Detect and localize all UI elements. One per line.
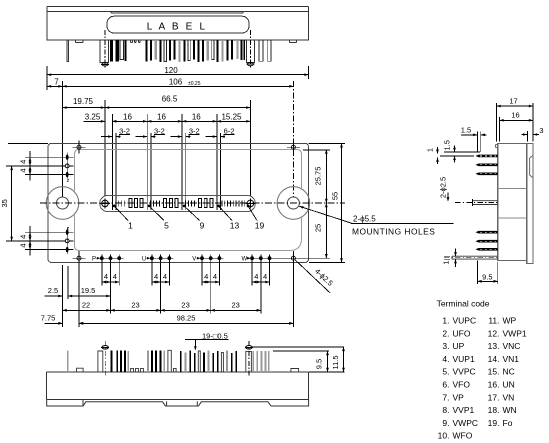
svg-text:12.: 12. [488, 328, 500, 338]
svg-text:5: 5 [164, 221, 169, 231]
svg-text:3.: 3. [442, 341, 449, 351]
svg-text:19-□0.5: 19-□0.5 [202, 331, 228, 340]
svg-text:7.75: 7.75 [41, 314, 56, 323]
svg-text:2.5: 2.5 [48, 286, 58, 295]
svg-text:3.25: 3.25 [85, 112, 101, 121]
svg-text:2-ϕ2.5: 2-ϕ2.5 [439, 177, 448, 198]
svg-text:Terminal code: Terminal code [437, 299, 490, 309]
svg-text:4.: 4. [442, 354, 449, 364]
svg-text:22: 22 [82, 301, 90, 310]
svg-text:UP: UP [453, 341, 465, 351]
svg-text:23: 23 [131, 301, 139, 310]
dim 15.25 [217, 112, 251, 122]
svg-text:66.5: 66.5 [162, 95, 178, 104]
svg-text:P: P [92, 257, 96, 263]
svg-text:2-ϕ5.5: 2-ϕ5.5 [353, 214, 376, 223]
svg-text:4: 4 [154, 272, 158, 281]
svg-text:15.: 15. [488, 367, 500, 377]
dim 106 [63, 77, 294, 87]
svg-text:4: 4 [113, 272, 117, 281]
svg-text:VP: VP [453, 392, 465, 402]
bottom dimension rows [41, 251, 294, 327]
svg-text:16: 16 [192, 112, 201, 121]
front left thin pin [67, 40, 69, 61]
svg-text:5.: 5. [442, 367, 449, 377]
svg-text:19.5: 19.5 [81, 286, 96, 295]
ext lines slot guides [105, 100, 250, 197]
svg-text:120: 120 [164, 66, 178, 75]
svg-text:8.: 8. [442, 405, 449, 415]
svg-text:17.: 17. [488, 392, 500, 402]
svg-text:4: 4 [19, 168, 28, 172]
corner hole bottom-right [287, 252, 300, 265]
svg-text:106: 106 [169, 77, 183, 86]
svg-text:23: 23 [232, 301, 240, 310]
svg-text:3: 3 [539, 126, 543, 135]
corner hole top-right [287, 141, 300, 154]
svg-text:Fo: Fo [503, 418, 513, 428]
label plate [107, 16, 249, 33]
svg-text:16.: 16. [488, 380, 500, 390]
svg-text:11.5: 11.5 [331, 355, 340, 369]
svg-text:VNC: VNC [503, 341, 521, 351]
svg-text:VUP1: VUP1 [453, 354, 475, 364]
ext line hole centers [63, 81, 294, 197]
left edge terminals [65, 153, 73, 254]
plan mounting ear right [277, 187, 310, 220]
corner hole top-left [73, 141, 86, 154]
svg-text:UFO: UFO [453, 328, 471, 338]
svg-text:19: 19 [255, 221, 265, 231]
label 4-phi2.5 [295, 260, 335, 294]
svg-text:UN: UN [503, 380, 515, 390]
pin number leaders [113, 205, 264, 231]
svg-text:11.: 11. [488, 316, 499, 326]
ext line body top left [8, 142, 48, 144]
side view body [496, 144, 533, 264]
svg-text:23: 23 [181, 301, 189, 310]
svg-text:9: 9 [200, 221, 205, 231]
svg-text:16: 16 [123, 112, 132, 121]
bottom view pin row [67, 350, 299, 372]
svg-text:WN: WN [503, 405, 517, 415]
svg-text:z: z [67, 226, 70, 232]
mounting hole left [57, 197, 69, 209]
corner hole bottom-left [73, 252, 86, 265]
svg-text:VN1: VN1 [503, 354, 520, 364]
svg-text:WP: WP [503, 316, 517, 326]
svg-text:6-2: 6-2 [224, 126, 235, 135]
guide pin right front [246, 30, 254, 68]
side view dimensions [425, 97, 543, 285]
bottom view body and baseplate [47, 372, 309, 406]
dim 7 [47, 77, 63, 87]
svg-text:19.75: 19.75 [73, 97, 94, 106]
svg-text:4: 4 [19, 243, 28, 247]
svg-text:9.5: 9.5 [315, 359, 324, 369]
svg-text:4: 4 [19, 160, 28, 164]
svg-text:VVP1: VVP1 [453, 405, 475, 415]
mounting hole right [287, 197, 299, 209]
svg-text:4: 4 [213, 272, 217, 281]
dim 19.75 [63, 97, 106, 109]
svg-text:L A B E L: L A B E L [147, 21, 208, 32]
svg-text:1: 1 [128, 221, 133, 231]
svg-text:9.5: 9.5 [482, 272, 492, 281]
svg-text:VWPC: VWPC [453, 418, 479, 428]
svg-text:WFO: WFO [453, 431, 473, 441]
svg-text:25: 25 [313, 224, 322, 232]
front view left foot notch [76, 40, 84, 42]
dims 3-2 and 6-2 with extension lines [101, 114, 235, 210]
svg-text:15.25: 15.25 [221, 112, 242, 121]
svg-text:98.25: 98.25 [177, 314, 196, 323]
right dimension stack 25.75 25 55 [272, 143, 345, 262]
plan centerline [40, 202, 345, 204]
plan mounting ear left [46, 187, 79, 220]
side long bottom pin [444, 256, 498, 259]
guide pin hole left plan [100, 198, 110, 208]
svg-text:13: 13 [230, 221, 240, 231]
plan outer body [48, 143, 309, 262]
LABEL text [147, 21, 208, 32]
dim 66.5 [105, 95, 250, 109]
svg-text:V: V [192, 257, 196, 263]
svg-text:NC: NC [503, 367, 515, 377]
svg-text:9.: 9. [442, 418, 449, 428]
dim 16 a [112, 112, 147, 122]
plan inner lid outline [75, 150, 302, 251]
svg-text:6.: 6. [442, 380, 449, 390]
svg-text:z: z [67, 178, 70, 184]
svg-text:4: 4 [163, 272, 167, 281]
svg-text:VUPC: VUPC [453, 316, 477, 326]
side pins top group [476, 155, 498, 176]
dim 3.25 [84, 112, 117, 122]
bottom guide pin left [101, 341, 109, 376]
dim 120 [47, 66, 309, 90]
svg-text:16: 16 [157, 112, 166, 121]
guide pin hole right plan [245, 198, 255, 208]
svg-text:4: 4 [19, 235, 28, 239]
svg-text:18.: 18. [488, 405, 500, 415]
svg-text:VVPC: VVPC [453, 367, 476, 377]
svg-text:3-2: 3-2 [189, 126, 200, 135]
svg-text:4: 4 [104, 272, 108, 281]
svg-text:4: 4 [204, 272, 208, 281]
svg-text:U: U [142, 257, 146, 263]
svg-text:17: 17 [509, 97, 517, 106]
svg-text:19.: 19. [488, 418, 500, 428]
dim 16 b [147, 112, 182, 122]
terminal slot [100, 195, 256, 211]
guide pin left front [100, 30, 109, 68]
front view body [47, 11, 309, 40]
svg-text:±0.25: ±0.25 [188, 81, 201, 87]
side guide pin [455, 199, 498, 206]
slot pins [116, 198, 245, 207]
svg-text:10.: 10. [438, 431, 450, 441]
svg-text:2.: 2. [442, 328, 449, 338]
svg-text:4: 4 [263, 272, 267, 281]
svg-text:MOUNTING HOLES: MOUNTING HOLES [352, 226, 435, 236]
svg-text:55: 55 [330, 192, 339, 200]
front view top lid strip [47, 6, 309, 13]
svg-text:7: 7 [54, 77, 59, 86]
svg-text:13.: 13. [488, 341, 500, 351]
svg-text:1.5: 1.5 [461, 125, 471, 134]
label 2-phi5.5 mounting holes [299, 206, 453, 236]
bottom screw terminals P U V W [92, 254, 274, 262]
svg-text:VN: VN [503, 392, 515, 402]
svg-text:W: W [241, 257, 247, 263]
svg-text:16: 16 [511, 111, 519, 120]
terminal code table [437, 299, 527, 441]
side pins bottom group [476, 231, 498, 251]
left dimension stack 4 4 35 4 4 [0, 151, 66, 256]
svg-text:VFO: VFO [453, 380, 471, 390]
svg-text:35: 35 [0, 199, 9, 207]
svg-text:VWP1: VWP1 [503, 328, 527, 338]
svg-text:4: 4 [254, 272, 258, 281]
svg-text:25.75: 25.75 [313, 167, 322, 186]
svg-text:3-2: 3-2 [154, 126, 165, 135]
dim 16 c [182, 112, 217, 122]
bottom guide pin right [245, 341, 253, 376]
svg-text:1.: 1. [442, 316, 449, 326]
svg-text:7.: 7. [442, 392, 449, 402]
bottom view dimensions [185, 331, 345, 372]
svg-text:3-2: 3-2 [119, 126, 130, 135]
front view right foot notch [290, 40, 297, 42]
svg-text:1: 1 [442, 260, 451, 264]
front view pin row [110, 40, 271, 62]
svg-text:14.: 14. [488, 354, 500, 364]
svg-text:1.5: 1.5 [443, 140, 452, 150]
svg-text:1: 1 [425, 148, 434, 152]
